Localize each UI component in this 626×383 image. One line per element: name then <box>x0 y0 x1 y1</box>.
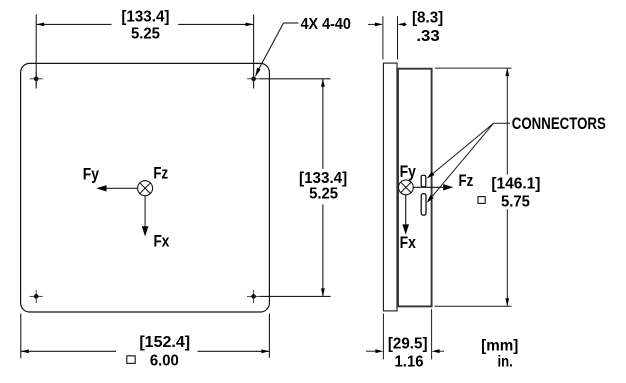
svg-text:1.16: 1.16 <box>395 353 424 371</box>
svg-text:CONNECTORS: CONNECTORS <box>512 115 606 134</box>
svg-text:[mm]: [mm] <box>481 337 518 354</box>
svg-text:Fx: Fx <box>400 234 417 253</box>
svg-text:Fy: Fy <box>400 163 417 182</box>
svg-text:Fz: Fz <box>459 171 474 190</box>
svg-text:.33: .33 <box>416 27 439 45</box>
svg-text:5.25: 5.25 <box>131 25 160 43</box>
svg-text:Fx: Fx <box>154 232 170 251</box>
svg-text:4X 4-40: 4X 4-40 <box>301 16 351 34</box>
svg-text:[133.4]: [133.4] <box>121 8 169 25</box>
svg-text:Fz: Fz <box>153 164 168 183</box>
svg-text:in.: in. <box>497 354 512 371</box>
svg-text:5.75: 5.75 <box>501 193 530 211</box>
svg-text:[8.3]: [8.3] <box>412 9 443 26</box>
svg-text:Fy: Fy <box>83 165 100 184</box>
svg-text:6.00: 6.00 <box>150 352 179 370</box>
svg-text:[146.1]: [146.1] <box>491 175 540 192</box>
svg-text:[29.5]: [29.5] <box>388 335 428 352</box>
svg-text:5.25: 5.25 <box>309 185 338 203</box>
svg-text:[152.4]: [152.4] <box>139 334 190 351</box>
